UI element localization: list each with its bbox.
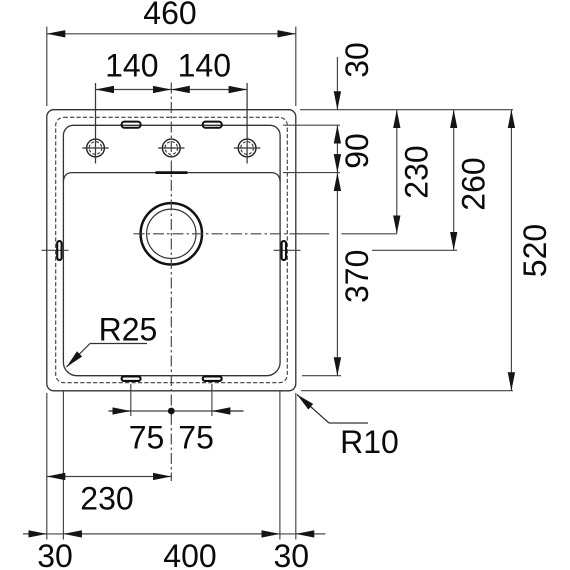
midline tick left [42, 249, 69, 251]
tap hole 2 inner dashed circle [165, 142, 178, 155]
dim 520 line [510, 110, 512, 391]
svg-text:400: 400 [163, 538, 216, 570]
tap hole 1 crosshair [82, 147, 108, 149]
witness rim left bottom [62, 391, 64, 540]
svg-text:140: 140 [105, 48, 158, 84]
drain horizontal centerline [134, 233, 301, 235]
clip top left [122, 122, 141, 128]
vertical centerline [170, 83, 172, 482]
dim chain bottom line [23, 533, 326, 535]
tap hole 2 crosshair [158, 147, 184, 149]
R10 leader shelf [329, 422, 368, 424]
dim 30 stem [336, 57, 338, 110]
drain outer circle [141, 203, 202, 264]
tap witness line left [95, 83, 97, 164]
tap hole 3 crosshair [234, 147, 260, 149]
svg-text:260: 260 [456, 157, 492, 210]
R25 leader arrow [67, 344, 91, 368]
svg-text:75: 75 [178, 420, 214, 456]
witness outer right bottom [295, 393, 297, 540]
dim 230 bottom line [47, 476, 172, 478]
dim 75 witness right [211, 384, 213, 416]
clip right side [282, 241, 286, 260]
dim 370 line [336, 173, 338, 376]
extension line outer bottom right [301, 390, 513, 392]
witness rim right bottom [279, 391, 281, 540]
dim 260 line [453, 110, 455, 251]
svg-text:30: 30 [37, 538, 73, 570]
dim chain right tail arrow [296, 533, 326, 535]
clip left side [57, 241, 61, 260]
clip bottom right [203, 377, 222, 381]
tap hole 2 circle [162, 139, 180, 157]
dim 75 line [109, 410, 244, 412]
dim 460 line [47, 33, 296, 35]
tap hole 3 inner dashed circle [241, 142, 254, 155]
svg-text:230: 230 [399, 145, 435, 198]
dim 90 line [336, 125, 338, 172]
dim 75 witness left [130, 384, 132, 416]
worktop cutout dashed rectangle [56, 117, 288, 382]
clip bottom left [122, 377, 141, 381]
svg-text:230: 230 [80, 481, 133, 517]
svg-text:R25: R25 [99, 312, 158, 348]
svg-text:30: 30 [339, 42, 375, 78]
midline tick right [274, 249, 301, 251]
dim 460 witness right [295, 27, 297, 107]
dim 140 left line [96, 89, 172, 91]
extension line rim right [283, 124, 340, 126]
svg-text:30: 30 [274, 538, 310, 570]
dim 140 right line [171, 89, 247, 91]
svg-text:140: 140 [178, 48, 231, 84]
clip top right [203, 122, 222, 128]
svg-text:90: 90 [339, 133, 375, 169]
inner rim / bowl rectangle [63, 125, 280, 375]
svg-text:R10: R10 [340, 424, 399, 460]
witness outer left bottom [46, 393, 48, 540]
faucet deck divider line [63, 173, 280, 182]
tap hole 1 inner dashed circle [89, 142, 102, 155]
dim chain 400 arrows [63, 533, 280, 535]
svg-text:460: 460 [143, 0, 196, 31]
tap witness line right [246, 83, 248, 164]
extension line bowl bottom right [302, 375, 341, 377]
drain centerline extension right dash 2 [341, 233, 396, 235]
dim 460 witness left [46, 27, 48, 107]
svg-text:75: 75 [129, 420, 165, 456]
tap hole 3 circle [238, 139, 256, 157]
extension line deck right [283, 172, 340, 174]
dim 75 left arrow [109, 410, 131, 412]
dim 75 center dot [168, 408, 175, 415]
extension line top edge right [300, 109, 513, 111]
svg-text:520: 520 [517, 224, 553, 277]
sink outer edge rectangle [47, 110, 296, 391]
R10 leader arrow [297, 395, 329, 424]
drain inner circle [147, 209, 196, 258]
dim chain left tail arrow [23, 533, 47, 535]
R25 leader shelf [90, 343, 147, 345]
tap hole 1 circle [87, 139, 105, 157]
dim 75 right arrow [212, 410, 244, 412]
dim 230 right line [396, 110, 398, 234]
svg-text:370: 370 [339, 250, 375, 303]
drain centerline extension right dash [300, 233, 329, 235]
extension line midline right [372, 249, 457, 251]
overflow bold mark [156, 171, 188, 174]
